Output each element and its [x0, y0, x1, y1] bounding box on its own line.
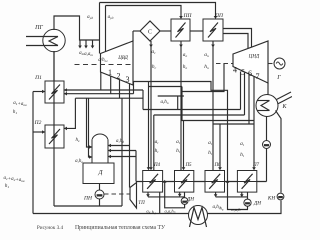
svg-text:Рисунок 3.4: Рисунок 3.4: [37, 225, 64, 231]
svg-text:ПП: ПП: [183, 13, 193, 19]
svg-text:П5: П5: [184, 163, 192, 168]
svg-text:Принципиальная тепловая схема: Принципиальная тепловая схема ТУ: [75, 225, 166, 231]
svg-text:ПГ: ПГ: [34, 25, 43, 31]
svg-text:а/hпг: а/hпг: [98, 58, 108, 63]
svg-text:6: 6: [248, 69, 252, 78]
svg-text:ЦВД: ЦВД: [117, 56, 128, 61]
svg-text:h1: h1: [5, 184, 10, 189]
svg-text:ЦНД: ЦНД: [248, 55, 260, 60]
svg-text:КН: КН: [267, 196, 275, 202]
svg-text:а,hе: а,hе: [75, 159, 83, 164]
svg-text:h1: h1: [13, 110, 18, 115]
svg-text:а,hд: а,hд: [116, 139, 124, 144]
svg-text:П6: П6: [213, 163, 221, 168]
svg-text:ауд: ауд: [87, 15, 93, 20]
svg-text:П7: П7: [252, 163, 260, 168]
svg-text:П4: П4: [153, 163, 161, 168]
svg-text:Г: Г: [276, 75, 281, 81]
svg-text:4: 4: [233, 66, 237, 75]
svg-text:ПП: ПП: [214, 13, 224, 19]
svg-text:П2: П2: [34, 120, 42, 126]
svg-text:а,hп: а,hп: [161, 100, 169, 105]
svg-text:ПН: ПН: [83, 196, 93, 202]
svg-text:а,hд: а,hд: [212, 205, 220, 210]
svg-text:3: 3: [126, 75, 130, 84]
svg-text:1: 1: [108, 68, 112, 77]
svg-text:ДН: ДН: [253, 201, 261, 207]
svg-text:7: 7: [256, 72, 260, 81]
svg-text:2: 2: [117, 72, 121, 81]
svg-text:hе: hе: [75, 138, 80, 143]
svg-text:ТП: ТП: [138, 201, 145, 206]
svg-text:П1: П1: [34, 75, 42, 81]
svg-text:ДН: ДН: [186, 197, 194, 203]
svg-text:ауд: ауд: [108, 15, 114, 20]
svg-text:5: 5: [241, 68, 245, 77]
svg-text:Д: Д: [97, 169, 103, 176]
svg-text:С: С: [148, 30, 152, 36]
